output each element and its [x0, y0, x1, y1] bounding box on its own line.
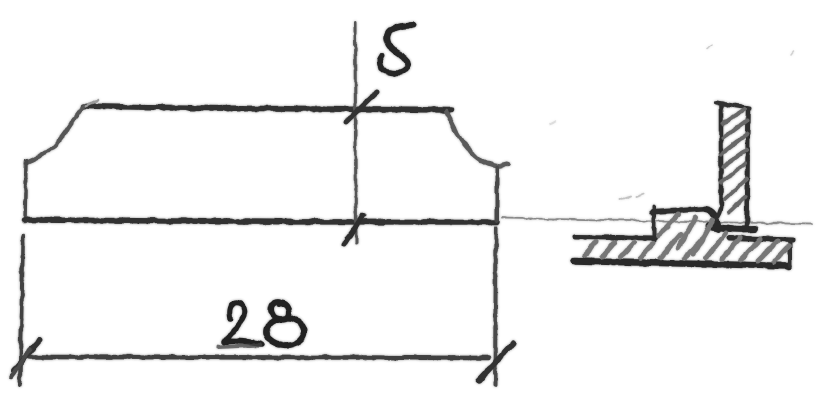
dimension line 5 vertical: [355, 23, 356, 243]
profile right edge: [495, 167, 499, 220]
extension line right: [495, 228, 496, 385]
label 5: [380, 25, 414, 73]
profile top-left cove: [26, 106, 84, 163]
section bar top edge: [716, 103, 750, 108]
faint speck 2: [791, 51, 794, 55]
section step vertical: [652, 207, 656, 240]
section base top edge left: [575, 237, 655, 238]
section base right edge: [788, 240, 792, 265]
top-left corner overshoot: [86, 100, 98, 106]
profile bottom edge: [24, 220, 497, 222]
section step top: [652, 209, 705, 212]
faint speck 1: [706, 45, 712, 49]
profile top edge: [84, 106, 452, 110]
tick mark left second stroke: [11, 350, 30, 377]
section base top edge right: [730, 238, 793, 240]
tick mark top: [346, 92, 377, 122]
stray mark: [620, 194, 644, 200]
dimension line 28: [30, 357, 488, 358]
faint speck 3: [550, 121, 556, 124]
extension line left: [20, 236, 23, 384]
reference line: [502, 218, 812, 224]
tick mark left: [14, 340, 40, 370]
profile top-right cove: [446, 111, 508, 166]
section bar right edge: [747, 108, 748, 229]
tick mark right: [479, 344, 513, 380]
section base hatch: [584, 214, 789, 262]
tick mark bottom: [344, 215, 363, 245]
section bar left edge: [708, 105, 721, 225]
section base bottom edge: [574, 261, 789, 266]
section bar hatch: [721, 109, 747, 212]
label 2: [224, 303, 262, 344]
label 2 underline: [218, 345, 260, 347]
section fillet: [705, 209, 719, 229]
label 8: [267, 302, 304, 345]
profile left edge: [25, 161, 26, 222]
section bar bottom junction: [709, 226, 755, 229]
